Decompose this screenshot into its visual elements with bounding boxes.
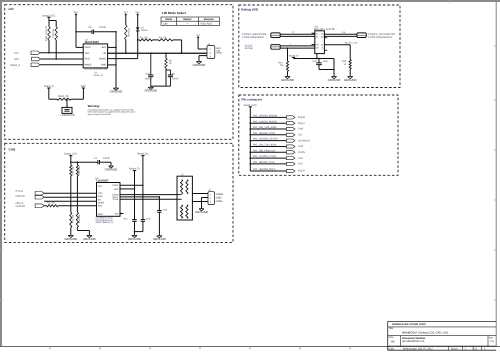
LIN section dashed box [5,5,233,140]
ground [201,208,203,209]
svg-text:board_N: board_N [94,74,103,77]
svg-text:GROUND: GROUND [64,237,77,241]
svg-text:C40: C40 [312,60,317,63]
svg-text:PIO_11(KOM_IRQA0): PIO_11(KOM_IRQA0) [253,120,277,123]
ground [287,75,289,76]
junction [150,53,152,55]
svg-text:LINMASTER: LINMASTER [61,114,76,117]
svg-text:open R2 and do not fit R100: open R2 and do not fit R100 [88,113,111,116]
capacitor C42 100nF [134,189,136,220]
svg-text:EN: EN [98,198,102,201]
junction [134,231,136,233]
svg-text:PIO_14(KOM_JOYAD): PIO_14(KOM_JOYAD) [253,138,278,141]
svg-text:CAN: CAN [9,147,16,151]
svg-text:TJA1042T: TJA1042T [96,179,110,183]
svg-text:R100_0R: R100_0R [58,95,69,98]
svg-text:GROUND: GROUND [144,89,157,93]
svg-text:TXD: TXD [98,192,103,195]
wire CANT [120,184,143,186]
ground [158,235,160,236]
border zone ticks right [494,45,496,47]
svg-text:JOYPAD-A: JOYPAD-A [298,139,310,142]
resistor R12 10k [55,21,57,27]
svg-text:GROUND: GROUND [195,210,208,214]
svg-text:GROUND: GROUND [110,90,123,94]
svg-text:TDI7: TDI7 [298,163,304,166]
power flag board_VCC 2 [69,155,72,157]
svg-text:Warning:: Warning: [88,104,100,108]
junction [48,52,50,54]
wire TXD [40,52,83,54]
junction [55,58,57,60]
wire pin stub [108,46,116,48]
svg-text:board_VCC: board_VCC [64,153,77,156]
wire NSLP [40,64,83,66]
svg-text:Master: Master [183,18,191,21]
junction [316,58,318,60]
svg-text:C43: C43 [146,217,151,220]
capacitor C44 100nF [158,197,160,211]
resistor R13 10k pulldown [70,206,72,213]
wire J4 GND [202,197,209,199]
svg-text:CTX-A: CTX-A [16,190,24,193]
svg-text:CANT: CANT [112,184,119,187]
jumper U5 LINMASTER [62,107,72,113]
svg-text:VCC: VCC [114,188,119,191]
svg-text:Wednesday, July 25, 2012: Wednesday, July 25, 2012 [403,347,433,350]
svg-text:Mode: Mode [165,18,172,21]
svg-text:U10: U10 [314,26,319,29]
wire pin stub [108,64,116,66]
svg-text:LIN Mode Select: LIN Mode Select [162,11,186,15]
wire [280,33,315,35]
wire [70,176,72,206]
pin row PIO_16B_PION_KO [249,151,251,153]
LIN Mode Select table [161,17,219,25]
wire [48,88,50,99]
junction [333,69,335,71]
svg-text:GROUND: GROUND [193,63,206,67]
svg-text:Debug vDD: Debug vDD [241,7,258,11]
pin row PIO_19(KOM_IRQ1) [250,170,286,172]
svg-text:GROUND: GROUND [281,78,294,82]
svg-text:R10, R14: R10, R14 [201,22,213,25]
wire CANL [120,198,177,200]
wire [75,16,77,47]
resistor R10 10k [287,48,289,61]
pin row PIO_15B_TDO_KOM [249,146,251,148]
svg-text:100nF: 100nF [172,77,179,80]
wire STB [58,205,97,207]
capacitor C9 100nF [170,70,172,75]
pin row PIO_14(KOM_JOYAD) [249,140,251,142]
svg-text:C44: C44 [163,208,168,211]
wire [55,40,57,59]
choke L2 [177,176,192,220]
svg-text:TCK: TCK [298,157,303,160]
svg-text:PIO_10(KOM_IRQB0): PIO_10(KOM_IRQB0) [253,115,277,118]
wire SPLIT [120,196,159,198]
wire [153,39,159,41]
resistor R30 1k [349,45,351,60]
svg-text:PIO_15B_TDO_KOM: PIO_15B_TDO_KOM [253,144,276,147]
svg-text:#TOOL1(CN)/DEBTL: #TOOL1(CN)/DEBTL [242,36,265,39]
svg-text:C10: C10 [145,73,150,76]
power flag BAT2 [82,87,85,89]
border zone ticks top [49,0,51,3]
power flag Board_Tx [133,170,136,172]
port TOOL0_OUT [357,33,366,38]
pin row PIO_12B_TMS_KOM [249,128,251,130]
svg-text:TXD 10k: TXD 10k [52,28,55,38]
Debug vDD section dashed box [239,5,400,88]
wire EN [44,200,96,202]
wire [125,40,127,54]
wire [142,156,144,186]
svg-text:BAT: BAT [102,46,107,49]
svg-text:R13 10k: R13 10k [71,214,74,223]
junction [77,161,79,163]
pin row PIO_18(KOM_TDI1) [249,163,251,165]
resistor R4 0R [44,205,46,207]
wire ic bottom stub [316,54,318,59]
svg-text:GND: GND [98,213,103,216]
Pin connector section dashed box [239,95,398,175]
junction [115,31,117,33]
svg-text:A4-MINIMOD5T-01: A4-MINIMOD5T-01 [402,340,425,343]
svg-text:R12 10k: R12 10k [78,165,81,174]
svg-text:Title: Title [389,327,394,330]
resistor R2 0R [138,39,140,41]
svg-text:STB: STB [98,205,103,208]
svg-text:LTX: LTX [14,52,19,55]
svg-text:SLCDB: SLCDB [245,47,253,50]
wire [293,57,295,58]
wire [173,39,182,41]
wire out [324,33,357,35]
svg-text:GROUND: GROUND [153,237,166,241]
svg-text:PIO_17(KOM_TCK0): PIO_17(KOM_TCK0) [253,155,276,158]
wire [82,88,84,99]
svg-text:PIO_12B_TMS_KOM: PIO_12B_TMS_KOM [253,126,276,129]
ground [198,60,200,61]
connector J4 CAN [208,192,215,205]
capacitor C5 100nF [76,31,92,33]
svg-text:CANL: CANL [113,198,120,201]
junction [137,39,139,41]
svg-text:MINIMOD5T (Debug LCD, CAN, LIN: MINIMOD5T (Debug LCD, CAN, LIN) [402,330,448,334]
wire [137,16,139,27]
junction [70,161,72,163]
ground [70,234,72,235]
svg-text:R11 10k: R11 10k [71,166,74,175]
ground [115,87,117,88]
wire vcc rail [70,156,72,163]
wire vcc bus [249,107,251,171]
svg-text:RLIN 1k: RLIN 1k [128,27,131,36]
wire [66,99,68,107]
resistor R6 1k [165,53,167,58]
svg-text:PIO_18(KOM_TDI1): PIO_18(KOM_TDI1) [253,161,275,164]
title block frame [388,321,497,323]
capacitor C1 100nF [97,160,99,164]
svg-text:board_N: board_N [44,85,54,88]
sheet top border [0,0,500,2]
capacitor C43 100nF [142,185,144,219]
svg-text:TMS: TMS [298,128,304,131]
svg-text:IRQ-S: IRQ-S [298,170,305,173]
junction [75,31,77,33]
svg-text:WAKE: WAKE [99,58,106,61]
svg-text:NERR: NERR [98,202,105,205]
transceiver U1 MAX13020 [83,44,107,68]
svg-text:Sheet: Sheet [451,347,458,350]
svg-text:PIO_19(KOM_IRQ1): PIO_19(KOM_IRQ1) [253,168,276,171]
svg-text:—: — [187,22,190,25]
svg-text:A4: A4 [391,339,395,343]
wire CAN TXD [44,192,96,194]
capacitor C10 100nF [150,53,152,75]
svg-text:Resistor: Resistor [204,18,214,21]
transceiver U2 TJA1042T [97,183,121,217]
svg-text:1.0x: 1.0x [490,340,495,343]
wire [76,227,78,230]
svg-text:of: of [475,347,477,350]
resistor R14 10k pulldown [76,201,78,212]
svg-text:board_N: board_N [289,55,299,58]
svg-text:GROUND: GROUND [344,78,357,82]
svg-text:LIN: LIN [102,52,106,55]
resistor R11 10k [48,21,50,27]
wire [137,31,139,59]
capacitor C40 100n [318,59,320,63]
svg-text:Yellow: Yellow [141,29,148,32]
pin row PIO_13(KOM_TDI0) [249,134,251,136]
svg-text:CAN-RX: CAN-RX [16,205,26,208]
svg-text:Board_Rx: Board_Rx [137,153,149,156]
border zone ticks bottom [49,347,51,350]
svg-text:100nF: 100nF [99,26,107,29]
svg-text:CAN-TX: CAN-TX [16,195,26,198]
svg-text:VIO: VIO [98,185,102,188]
svg-text:SOT23 WSON8 3x3: SOT23 WSON8 3x3 [84,68,108,71]
svg-text:Board_Tx: Board_Tx [129,168,141,171]
svg-text:RXD: RXD [98,195,103,198]
wire LIN bus [108,52,207,54]
svg-text:GND: GND [101,64,107,67]
border zone ticks left [0,49,3,51]
ground [150,86,152,87]
svg-text:R3_0R: R3_0R [159,36,167,39]
wire [280,35,315,37]
svg-text:Adj. (R to set): Adj. (R to set) [345,42,358,45]
resistor R100 0R [57,98,71,100]
wire RXD [41,58,84,60]
resistor R3 0R [159,39,174,41]
svg-text:PIO_13(KOM_TDI0): PIO_13(KOM_TDI0) [253,132,275,135]
junction [142,184,144,186]
svg-text:100n: 100n [323,60,329,63]
power flag board_N [47,87,50,89]
svg-text:NSLP_A: NSLP_A [11,64,21,67]
svg-text:BAT: BAT [81,85,86,88]
wire VCC stub [120,188,135,190]
wire gnd rail [151,85,171,87]
wire [134,171,136,189]
ground [134,234,136,235]
wire [280,45,315,47]
svg-text:BAT: BAT [136,11,141,14]
pin row PIO_17(KOM_TCK0) [249,157,251,159]
sheet right border [495,1,497,347]
svg-text:TXD: TXD [85,52,90,55]
resistor R12 10k pullup [76,162,78,165]
svg-text:C42: C42 [123,217,128,220]
svg-text:board_VCC: board_VCC [244,104,257,107]
svg-text:GROUND: GROUND [105,167,118,171]
svg-text:R14 10k: R14 10k [78,214,81,223]
junction [159,196,161,198]
power flag board_VCC 3 [249,106,252,108]
power flag SLP [75,14,77,16]
junction [181,53,183,55]
resistor RLIN 1k [125,16,127,25]
svg-text:TDO: TDO [298,145,303,148]
resistor R11 10k pullup [70,162,72,165]
level shifter U10 [315,31,325,54]
ground [349,75,351,76]
connector J3 BAT LIN GND [207,46,215,59]
wire [110,162,112,165]
svg-text:MAX13020: MAX13020 [85,40,99,44]
wire [197,39,199,49]
svg-text:IRQ-B: IRQ-B [298,116,305,119]
svg-text:INH: INH [115,212,119,215]
svg-text:NSLP: NSLP [85,46,92,49]
wire to J4 CANH [192,193,208,195]
wire NSLP pin stub [76,46,83,48]
power flag board_VCC [47,16,50,18]
sheet bottom border [0,346,500,348]
wire [280,47,315,49]
wire [115,32,117,87]
svg-text:MAN_SLP 10k: MAN_SLP 10k [45,25,48,41]
svg-text:R2_0R: R2_0R [140,36,148,39]
CAN section dashed box [5,143,233,242]
power flag VLP [197,37,199,39]
junction [134,188,136,190]
wire CANH [120,194,177,196]
junction [125,53,127,55]
svg-text:#TOOL1(CN)/DEBTOL: #TOOL1(CN)/DEBTOL [368,36,393,39]
svg-text:GROUND: GROUND [128,237,141,241]
svg-text:GROUND: GROUND [83,237,96,241]
diode D1 [136,27,140,30]
pin row PIO_11(KOM_IRQA0) [249,122,251,124]
svg-text:VBAT=Board_Tx: VBAT=Board_Tx [96,221,115,224]
junction [70,205,72,207]
power flag board_N 2 [292,56,295,58]
wire [48,40,50,53]
wire [165,68,167,86]
svg-text:MAX-GP-L-2x-P-TR: MAX-GP-L-2x-P-TR [314,28,335,31]
svg-text:Date:: Date: [389,347,395,350]
power flag VL2 [125,14,127,16]
wire [76,176,78,201]
pin row PIO_10(KOM_IRQB0) [249,117,251,119]
wire INH stub [120,213,124,215]
svg-text:VLP: VLP [196,34,201,37]
wire [70,227,72,234]
svg-text:100nF: 100nF [145,77,152,80]
svg-text:GROUND: GROUND [328,78,341,82]
wire adj [324,44,350,46]
svg-text:R4_0R: R4_0R [47,202,55,205]
ground [88,234,90,235]
power flag Board_Rx [141,155,144,157]
sheet left border [0,0,2,347]
wire to J4 CANL [192,201,208,203]
ground [110,165,112,166]
svg-text:CANL: CANL [216,200,223,203]
power flag BAT [137,14,139,16]
wire out 2 [324,35,357,37]
svg-text:P-ION: P-ION [298,151,305,154]
wire [199,55,207,57]
svg-text:LRX: LRX [14,58,19,61]
svg-text:SLP: SLP [74,11,79,14]
svg-text:TDI: TDI [298,134,302,137]
svg-text:IRQ-A: IRQ-A [298,122,305,125]
svg-text:RXD: RXD [85,58,90,61]
svg-text:Pin connector: Pin connector [242,97,263,101]
svg-text:PIO_16B_PION_KO: PIO_16B_PION_KO [253,149,275,152]
ground [333,75,335,76]
wire [333,59,335,70]
svg-text:PERSEUS SOLUTIONS CORP.: PERSEUS SOLUTIONS CORP. [392,323,426,326]
wire WAKE [108,58,138,60]
svg-text:GND: GND [216,52,222,55]
svg-text:WAKE: WAKE [85,64,92,67]
svg-text:LIN: LIN [9,7,15,11]
wire [48,17,50,20]
svg-text:board_VCC: board_VCC [42,14,55,17]
svg-text:100nF: 100nF [103,157,111,160]
junction [77,200,79,202]
junction [165,53,167,55]
svg-text:LIN: LIN [163,22,167,25]
title block rev cell [487,336,489,347]
wire CAN RXD [44,196,96,198]
junction [287,47,289,49]
